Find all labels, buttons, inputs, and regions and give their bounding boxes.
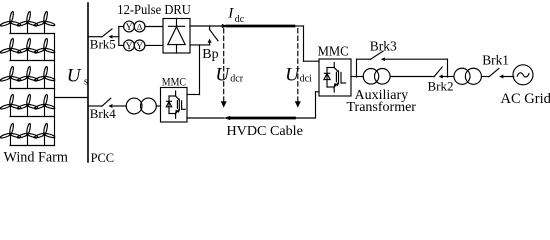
breaker Brk4 blade	[102, 98, 111, 106]
HVDC cable positive conductor	[227, 25, 294, 28]
svg-text:Y: Y	[126, 42, 133, 52]
wire transformer to Brk1	[482, 76, 489, 78]
wind turbine row 3 col 2	[17, 66, 38, 88]
wire Brk4 to MMC transformer	[113, 105, 126, 107]
breaker Brk2 blade	[434, 67, 442, 77]
svg-text:Y: Y	[136, 42, 143, 52]
wire Brk5 to DRU transformer	[113, 36, 119, 38]
transformer Y-D winding Y	[124, 21, 135, 33]
breaker Brk1 contact	[499, 75, 503, 79]
breaker Brk2 contact	[439, 75, 443, 79]
transformer grid winding 1	[454, 68, 470, 84]
svg-text:MMC: MMC	[318, 45, 349, 60]
wind farm row 4 bus	[10, 116, 55, 118]
wind turbine row 2 col 2	[17, 38, 38, 60]
wire DRU positive output	[190, 25, 222, 27]
transformer MMC winding 2	[141, 98, 157, 114]
wind turbine row 5 col 2	[17, 123, 38, 145]
wind farm feeder wire	[54, 34, 56, 146]
breaker Brk3 contact	[381, 57, 385, 61]
wind farm row 1 bus	[10, 33, 55, 35]
bypass switch Bp stub	[209, 26, 211, 30]
wire Brk3 to junction	[385, 59, 447, 77]
wire DRU to MMC series link	[187, 45, 200, 95]
diode symbol inside DRU	[168, 19, 185, 54]
wire PCC to Brk4	[88, 105, 102, 107]
wind turbine row 3 col 1	[0, 66, 21, 88]
svg-text:Brk1: Brk1	[482, 53, 509, 68]
breaker Brk3 blade	[370, 51, 383, 59]
wire windings to DRU box	[145, 27, 163, 46]
wind turbine row 4 col 1	[0, 94, 21, 116]
svg-text:Δ: Δ	[137, 22, 143, 32]
wind farm row 2 bus	[10, 60, 55, 62]
wire Brk3 branch riser	[357, 59, 371, 77]
svg-text:U: U	[285, 64, 300, 85]
svg-text:I: I	[227, 6, 234, 22]
svg-text:s: s	[84, 77, 88, 88]
HVDC cable negative conductor	[230, 117, 295, 120]
rectifier DRU box	[163, 19, 190, 54]
wind farm row 5 bus	[10, 145, 55, 147]
voltage arrow U dcr	[223, 29, 225, 102]
svg-text:Transformer: Transformer	[347, 100, 417, 115]
svg-text:PCC: PCC	[91, 151, 115, 165]
wind turbine row 3 col 3	[34, 66, 55, 88]
wire Brk1 to AC grid	[503, 76, 513, 78]
transformer auxiliary winding 2	[375, 69, 391, 85]
transformer auxiliary winding 1	[363, 69, 379, 85]
wire MMC negative output	[187, 117, 224, 119]
converter MMC sending box	[161, 88, 188, 123]
transformer Y-D winding D	[134, 21, 145, 32]
bypass switch Bp blade	[209, 29, 218, 41]
svg-text:Bp: Bp	[202, 47, 218, 62]
wind turbine row 2 col 3	[34, 38, 55, 60]
svg-text:dci: dci	[300, 74, 312, 85]
transformer Y-Y winding 2	[134, 40, 145, 52]
wire MMC AC output	[351, 76, 363, 78]
svg-text:Brk2: Brk2	[428, 78, 454, 93]
converter MMC receiving box	[319, 59, 351, 96]
svg-text:AC Grid: AC Grid	[501, 91, 550, 107]
wire transformer to MMC box	[156, 105, 160, 107]
bypass switch Bp contact	[208, 39, 212, 43]
breaker Brk1 blade	[489, 69, 499, 77]
voltage arrow U dci	[297, 29, 299, 102]
svg-text:Brk5: Brk5	[90, 37, 116, 52]
IGBT-diode symbol in receiving MMC	[324, 63, 346, 93]
wire cable to inverter top	[294, 26, 319, 61]
breaker Brk4 contact	[108, 104, 112, 108]
wire junction to grid transformer	[443, 76, 454, 78]
wind turbine row 1 col 3	[34, 11, 55, 33]
wind turbine row 4 col 3	[34, 94, 55, 116]
svg-text:Brk3: Brk3	[370, 38, 397, 53]
svg-text:12-Pulse DRU: 12-Pulse DRU	[117, 3, 191, 18]
wire cable to inverter bottom	[295, 92, 320, 118]
wire DRU transformer tee	[119, 27, 124, 46]
breaker Brk5 contact	[108, 35, 112, 39]
wire Bp to DRU negative	[190, 41, 210, 45]
wind turbine row 1 col 1	[0, 11, 21, 33]
AC source symbol	[513, 65, 533, 85]
wind turbine row 1 col 2	[17, 11, 38, 33]
IGBT-diode symbol in sending MMC	[166, 91, 185, 118]
wind turbine row 2 col 1	[0, 38, 21, 60]
svg-text:Wind Farm: Wind Farm	[4, 150, 68, 166]
transformer Y-Y winding 1	[124, 40, 135, 52]
svg-text:MMC: MMC	[162, 77, 186, 89]
breaker Brk5 blade	[102, 29, 112, 37]
wire aux transformer to Brk2	[390, 76, 434, 78]
current arrow I dc	[222, 24, 228, 28]
svg-text:U: U	[215, 64, 230, 85]
transformer MMC winding 1	[126, 98, 142, 114]
wind turbine row 4 col 2	[17, 94, 38, 116]
svg-text:dcr: dcr	[230, 74, 243, 85]
PCC bus	[87, 3, 89, 162]
return current arrow	[224, 116, 230, 120]
svg-text:HVDC Cable: HVDC Cable	[227, 123, 303, 139]
svg-text:U: U	[67, 66, 82, 87]
wire farm to PCC bus	[55, 97, 89, 99]
wind turbine row 5 col 1	[0, 123, 21, 145]
transformer grid winding 2	[465, 68, 481, 84]
wind farm row 3 bus	[10, 88, 55, 90]
wire PCC to Brk5	[88, 36, 102, 38]
svg-text:dc: dc	[235, 14, 245, 25]
wind turbine row 5 col 3	[34, 123, 55, 145]
svg-text:Y: Y	[126, 23, 133, 33]
svg-text:Brk4: Brk4	[90, 106, 117, 121]
